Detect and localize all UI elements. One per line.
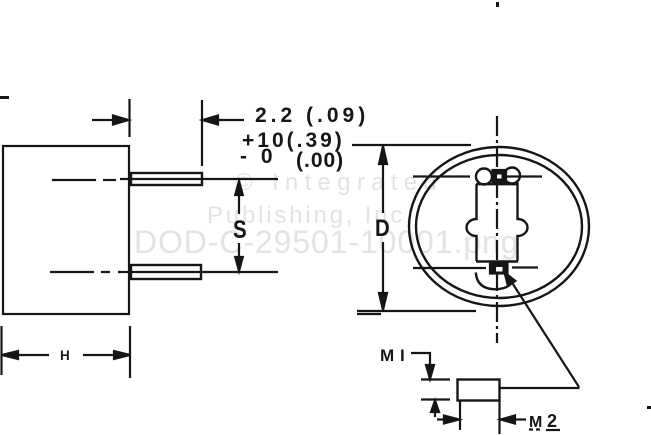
vertical centerline top dash <box>496 2 499 7</box>
svg-text:S: S <box>233 215 247 243</box>
M1 upper tick <box>421 378 450 380</box>
watermark line 2 <box>207 202 415 230</box>
stray mark right edge <box>647 406 651 409</box>
S dimension line with arrows <box>235 181 243 271</box>
top pin crimp <box>493 170 507 183</box>
bottom pin crimp <box>490 263 508 274</box>
watermark line 3 <box>134 224 519 261</box>
H dimension arrow left <box>2 351 49 359</box>
M1 leader bend <box>411 353 430 368</box>
lamp body outline (side view) <box>3 146 129 314</box>
M2 arrow left <box>437 416 459 424</box>
wedge base bottom shoulder line <box>476 260 518 262</box>
M detail rectangle <box>458 380 500 401</box>
svg-text:I: I <box>400 346 405 365</box>
wedge base top shoulder line <box>476 183 518 185</box>
H dimension extension line right <box>129 326 131 378</box>
svg-text:M: M <box>380 346 394 365</box>
2.2 dimension left arrow <box>92 116 129 125</box>
H dimension arrow right <box>83 351 130 359</box>
leader horizontal line to M rectangle <box>500 387 580 389</box>
2.2 dimension extension line at body edge <box>128 99 130 137</box>
outer circle of end view <box>409 147 589 306</box>
M2 extension line right <box>498 401 500 434</box>
M2 arrow right <box>501 416 527 424</box>
bottom lead L2 <box>118 265 278 279</box>
vertical centerline of end view <box>496 116 498 343</box>
D dimension bottom extension line <box>357 311 476 314</box>
top lead centerline dashes <box>52 179 116 181</box>
M2 underline <box>529 428 560 431</box>
M1 lower tick <box>421 398 450 400</box>
M1 arrow down <box>426 365 434 379</box>
watermark line 1 <box>235 169 443 197</box>
svg-text:(.00): (.00) <box>296 149 344 172</box>
wedge base right side with bump <box>518 183 528 262</box>
leader line to M detail <box>511 281 579 387</box>
H dimension extension line left <box>0 326 2 375</box>
wedge base top right lobe <box>504 168 520 184</box>
bottom lead centerline dashes <box>50 271 110 273</box>
top pin horizontal centerline <box>413 175 542 177</box>
svg-text:2.2 (.09): 2.2 (.09) <box>255 104 369 127</box>
stray mark left edge <box>0 96 9 99</box>
M1 arrow up <box>431 401 439 418</box>
wedge base left side with bump <box>467 184 477 261</box>
M2 extension line left <box>459 401 461 430</box>
2.2 dimension right arrow <box>203 116 245 125</box>
inner circle of end view <box>416 155 582 298</box>
wedge base top left lobe <box>476 169 492 185</box>
svg-text:- 0: - 0 <box>240 145 277 168</box>
svg-text:D: D <box>375 214 390 241</box>
2.2 dimension extension line at lead end <box>201 100 203 166</box>
D dimension line with arrows <box>379 146 387 310</box>
svg-text:2: 2 <box>547 411 557 431</box>
leader arrowhead at bottom pin <box>505 273 516 286</box>
svg-text:H: H <box>60 348 70 363</box>
bottom pin horizontal centerline <box>413 266 538 269</box>
wedge base bottom lobe arc <box>476 273 514 290</box>
D dimension top extension line <box>352 144 471 146</box>
top lead L1 <box>120 173 278 185</box>
